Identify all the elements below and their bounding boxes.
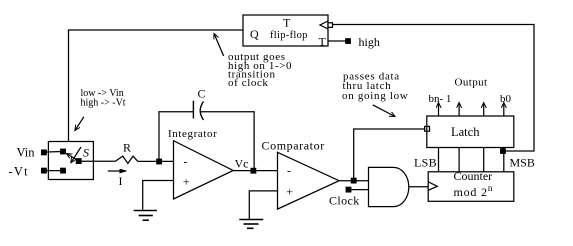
wire -Vt into box bbox=[46, 170, 63, 172]
svg-text:T: T bbox=[283, 16, 291, 30]
terminal Clock bbox=[346, 187, 351, 192]
svg-text:T: T bbox=[319, 35, 327, 49]
svg-text:LSB: LSB bbox=[414, 156, 437, 170]
wire Clock to AND gate bbox=[351, 189, 369, 191]
capacitor C right plate bbox=[200, 102, 203, 121]
pin latch enable bubble bbox=[425, 126, 430, 131]
wire comparator + input to ground bbox=[249, 191, 277, 219]
comparator op-amp U3 bbox=[278, 152, 340, 209]
svg-text:high: high bbox=[359, 35, 380, 49]
wire AND output to counter bbox=[409, 186, 428, 188]
ground comparator bbox=[239, 220, 263, 229]
svg-text:of clock: of clock bbox=[228, 77, 269, 89]
svg-text:+: + bbox=[183, 175, 190, 189]
capacitor C branch left bbox=[159, 112, 193, 162]
wire Vin into box bbox=[46, 151, 63, 154]
switch toggle arrow bbox=[71, 147, 81, 163]
svg-text:Q: Q bbox=[250, 27, 259, 41]
counter clock wedge bbox=[428, 182, 437, 191]
svg-text:-: - bbox=[184, 155, 188, 169]
capacitor C branch right bbox=[200, 112, 254, 171]
svg-text:Latch: Latch bbox=[451, 125, 480, 139]
svg-text:Vc: Vc bbox=[235, 157, 249, 171]
flip-flop clock bubble bbox=[328, 23, 333, 28]
terminal -Vt bbox=[42, 168, 47, 173]
latch output arrow b n-1 bbox=[438, 103, 440, 117]
node integrator inverting input bbox=[157, 159, 162, 164]
wire T pin to high terminal bbox=[328, 40, 346, 42]
svg-text:bn- 1: bn- 1 bbox=[429, 93, 452, 105]
capacitor C left plate bbox=[192, 101, 194, 119]
svg-text:on going low: on going low bbox=[342, 90, 408, 102]
svg-text:-Vt: -Vt bbox=[9, 165, 29, 179]
node Vc bbox=[251, 168, 256, 173]
svg-text:MSB: MSB bbox=[510, 156, 535, 170]
switch contact -Vt bbox=[61, 168, 66, 173]
latch U5 box bbox=[427, 116, 514, 148]
svg-text:I: I bbox=[119, 174, 123, 188]
svg-text:high -> -Vt: high -> -Vt bbox=[81, 98, 126, 109]
latch output arrow b0 bbox=[503, 103, 505, 117]
flip-flop clock wedge bbox=[320, 21, 328, 29]
svg-text:C: C bbox=[198, 87, 206, 101]
node MSB junction bbox=[501, 149, 506, 154]
wire clock feedback from MSB bbox=[333, 25, 535, 152]
svg-text:+: + bbox=[286, 185, 293, 199]
svg-text:Counter: Counter bbox=[454, 169, 493, 183]
flip-flop U1 box bbox=[243, 15, 328, 46]
switch arm bbox=[67, 154, 79, 161]
terminal high bbox=[346, 39, 351, 44]
wire switch common to resistor bbox=[81, 160, 115, 162]
AND gate U4 bbox=[369, 167, 409, 206]
terminal Vin bbox=[42, 150, 47, 155]
arrow annotation to Q wire bbox=[214, 34, 224, 56]
svg-text:R: R bbox=[123, 141, 131, 155]
latch output arrow bbox=[458, 103, 460, 117]
ground integrator bbox=[134, 211, 157, 221]
svg-text:b0: b0 bbox=[500, 93, 512, 105]
switch box S bbox=[48, 142, 93, 180]
switch common pole bbox=[76, 159, 81, 164]
svg-text:Output: Output bbox=[455, 77, 488, 89]
svg-text:Vin: Vin bbox=[17, 146, 36, 160]
wire resistor to integrator node bbox=[138, 160, 174, 162]
counter U6 box bbox=[428, 172, 514, 202]
node comparator output bbox=[351, 178, 356, 183]
wire latch to counter bit lines bbox=[439, 148, 504, 172]
svg-text:Clock: Clock bbox=[329, 194, 360, 208]
svg-text:S: S bbox=[83, 146, 89, 160]
wire comparator output to latch enable bbox=[354, 129, 425, 181]
svg-text:flip-flop: flip-flop bbox=[270, 30, 308, 41]
svg-text:mod 2n: mod 2n bbox=[454, 183, 494, 199]
svg-text:-: - bbox=[287, 164, 291, 178]
integrator op-amp U2 bbox=[174, 141, 234, 199]
wire comparator output to AND gate bbox=[339, 180, 368, 182]
svg-text:Comparator: Comparator bbox=[262, 139, 325, 153]
arrow annotation to switch box bbox=[75, 117, 84, 131]
latch output arrow bbox=[483, 103, 485, 117]
arrow annotation to latch enable bbox=[373, 105, 395, 117]
wire integrator + input to ground bbox=[143, 181, 174, 210]
wire integrator output Vc bbox=[233, 170, 277, 172]
switch contact Vin bbox=[61, 149, 66, 154]
resistor R bbox=[115, 156, 138, 163]
current arrow I bbox=[108, 170, 127, 172]
svg-text:Integrator: Integrator bbox=[168, 128, 217, 140]
wire Q output to switch control bbox=[69, 30, 244, 142]
